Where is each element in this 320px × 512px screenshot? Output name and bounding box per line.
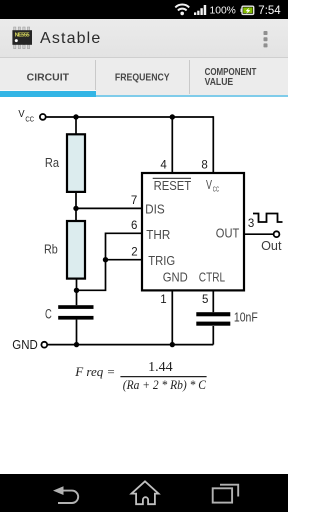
svg-text:CC: CC xyxy=(213,185,220,194)
wire: GND rail xyxy=(47,344,213,346)
svg-text:Out: Out xyxy=(261,238,282,253)
svg-text:100%: 100% xyxy=(210,5,236,16)
node junction dots xyxy=(73,114,175,347)
svg-text:CC: CC xyxy=(25,115,34,124)
terminal Vcc xyxy=(40,114,46,120)
battery icon xyxy=(241,6,254,14)
tab bar xyxy=(0,58,288,97)
resistor Rb xyxy=(67,221,85,279)
wire: OUT pin 3 xyxy=(244,233,274,235)
svg-text:5: 5 xyxy=(202,294,208,306)
svg-text:8: 8 xyxy=(201,159,207,171)
svg-text:VALUE: VALUE xyxy=(205,77,234,88)
svg-text:V: V xyxy=(206,177,212,192)
svg-text:CTRL: CTRL xyxy=(199,270,225,285)
wire: TRIG pin 2 horizontal xyxy=(106,259,143,261)
svg-text:GND: GND xyxy=(163,270,188,285)
svg-text:C: C xyxy=(45,307,52,322)
svg-text:RESET: RESET xyxy=(154,178,192,193)
wire: Ra bottom to Rb top xyxy=(75,191,77,222)
svg-text:Ra: Ra xyxy=(45,155,60,170)
wire: Vcc top rail xyxy=(46,116,213,118)
svg-text:7:54: 7:54 xyxy=(258,5,281,17)
nav bar xyxy=(0,474,288,512)
app icon: NE555 chip xyxy=(0,19,44,58)
RESET overline xyxy=(153,177,191,179)
wire: CTRL pin 5 drop xyxy=(212,290,214,312)
svg-text:10nF: 10nF xyxy=(234,310,258,325)
svg-text:4: 4 xyxy=(160,159,167,171)
svg-text:OUT: OUT xyxy=(216,226,240,241)
wire: DIS pin 7 horizontal xyxy=(76,207,142,209)
formula Freq = 1.44 / ((Ra + 2*Rb)*C) xyxy=(74,360,206,392)
svg-text:3: 3 xyxy=(248,218,254,230)
svg-text:1: 1 xyxy=(160,294,166,306)
svg-text:2: 2 xyxy=(131,246,137,258)
svg-text:TRIG: TRIG xyxy=(148,253,175,268)
svg-text:V: V xyxy=(18,109,25,120)
svg-text:DIS: DIS xyxy=(145,202,165,217)
svg-text:Rb: Rb xyxy=(44,242,58,257)
wire: Vcc rail to Ra top xyxy=(75,117,77,135)
wire: Rb bottom to capacitor C xyxy=(76,278,78,305)
recent apps button xyxy=(213,485,239,503)
wire: capacitor 10nF to GND rail xyxy=(212,326,214,345)
svg-text:CIRCUIT: CIRCUIT xyxy=(27,73,69,84)
capacitor 10nF plates xyxy=(196,312,230,316)
svg-text:NE555: NE555 xyxy=(15,33,31,39)
action bar xyxy=(0,19,288,58)
svg-text:THR: THR xyxy=(146,227,170,242)
signal strength bars xyxy=(194,5,206,15)
terminal Out xyxy=(274,231,280,237)
wire: pin 4 drop xyxy=(171,117,173,173)
svg-text:6: 6 xyxy=(131,220,137,232)
svg-text:1.44: 1.44 xyxy=(148,360,173,375)
IC U1 555 timer box xyxy=(142,173,244,290)
terminal GND xyxy=(41,342,47,348)
svg-text:7: 7 xyxy=(131,195,137,207)
wire: TRIG node down to Rb bottom node xyxy=(77,260,106,291)
back button xyxy=(58,491,78,503)
wire: pin 8 drop from rail corner xyxy=(212,116,214,173)
status bar xyxy=(0,0,288,19)
resistor Ra xyxy=(67,134,85,192)
overflow menu dots xyxy=(255,19,288,58)
wifi icon xyxy=(175,5,189,16)
wire: THR pin 6 with corner down xyxy=(106,233,143,259)
svg-text:GND: GND xyxy=(12,337,38,352)
home button xyxy=(132,481,159,504)
wire: capacitor C to GND rail xyxy=(76,320,78,345)
svg-text:FREQUENCY: FREQUENCY xyxy=(115,73,170,84)
wire: GND pin 1 drop xyxy=(171,290,173,345)
svg-text:(Ra + 2 * Rb) * C: (Ra + 2 * Rb) * C xyxy=(123,377,206,392)
square wave symbol at output xyxy=(253,214,283,223)
capacitor C plates xyxy=(58,305,93,309)
svg-text:F req =: F req = xyxy=(74,364,115,379)
